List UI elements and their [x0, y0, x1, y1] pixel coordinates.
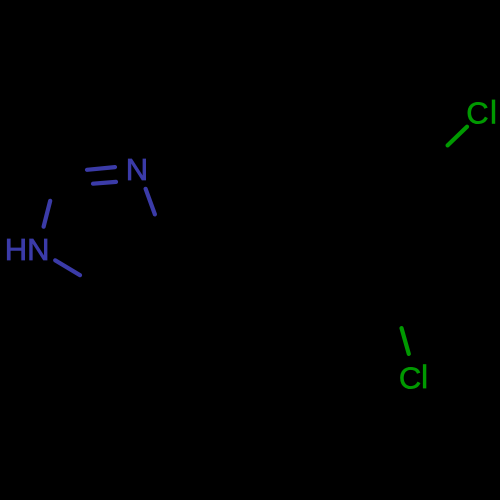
svg-text:C: C — [466, 95, 488, 130]
atom label Cl (bottom chlorine): l glyph — [423, 364, 426, 388]
bond C2=N3 inner double-bond line (N-side half, blue) — [93, 182, 116, 184]
svg-text:HN: HN — [5, 232, 50, 267]
svg-text:N: N — [126, 152, 148, 187]
bond C2=N3 main line (N-side half, blue) — [87, 167, 115, 170]
bond C3'-Cl top (Cl-side half, green) — [448, 127, 467, 146]
svg-text:C: C — [399, 360, 421, 395]
bond N3-C4 (N-side half, blue) — [146, 189, 155, 215]
bond N1-C2 (N-side half, blue) — [44, 201, 51, 227]
bond N1-C5 (N-side half, blue) — [55, 260, 80, 275]
bond C5'-Cl bottom (Cl-side half, green) — [402, 328, 409, 354]
atom label Cl (top chlorine): l glyph — [492, 100, 495, 124]
